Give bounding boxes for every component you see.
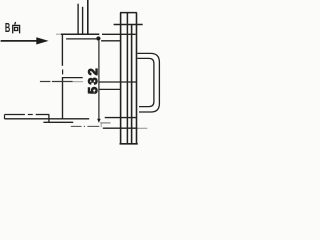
- svg-text:B: B: [5, 21, 11, 36]
- svg-text:532: 532: [86, 66, 100, 94]
